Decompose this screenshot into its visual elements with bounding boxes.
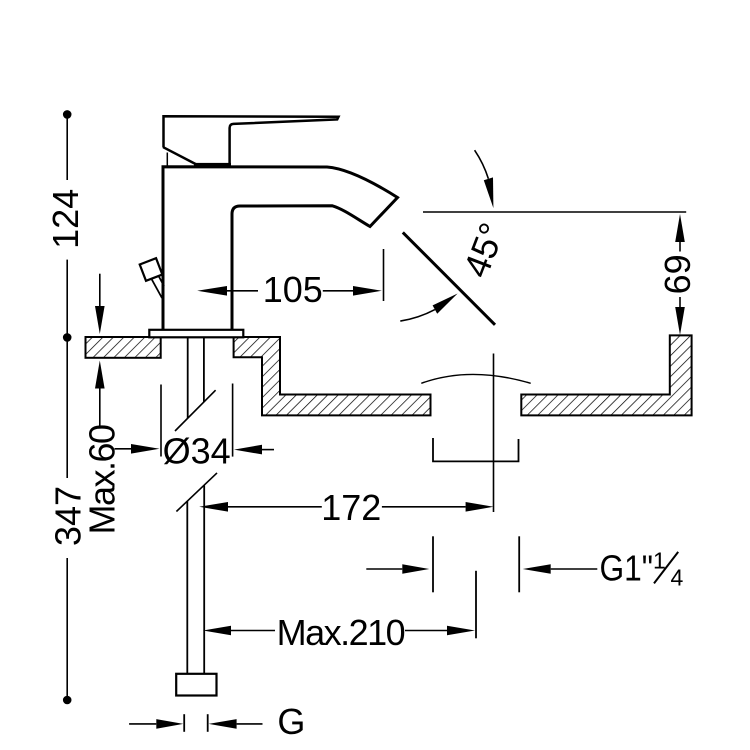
dimension Max.210 left arrow (203, 626, 231, 636)
countertop right step piece (234, 337, 431, 415)
countertop left slab (86, 337, 161, 358)
dimension Max.210 right arrow (405, 630, 447, 632)
svg-text:G: G (277, 701, 305, 742)
break line upper (175, 390, 216, 431)
dimension 69 lower arrow (679, 297, 681, 307)
svg-text:Max.60: Max.60 (82, 425, 123, 535)
dimension 45deg lower arc arrow (400, 310, 435, 322)
faucet handle base bar (194, 163, 231, 168)
dimension G left tick (183, 714, 185, 732)
dimension Max.210 center tick (475, 571, 477, 639)
dimension O34 left arrow (115, 448, 134, 450)
dimension G1 1/4 left tick (432, 536, 434, 592)
dimension 45deg horizontal reference line (423, 211, 686, 213)
dimension Max.60 upper arrow (99, 274, 101, 310)
dimension Max.60 lower arrow (95, 361, 105, 389)
drain tailpiece cup (433, 438, 519, 461)
pop-up rod (152, 280, 162, 299)
dimension 105 left arrow (197, 286, 227, 296)
dimension 124/347 dot middle (63, 333, 72, 342)
dimension 124 dot top (63, 110, 72, 119)
dimension G1 1/4 left arrow (366, 568, 402, 570)
basin water level arc (421, 374, 530, 383)
dimension G right tick (207, 714, 209, 732)
dimension 45deg slanted line (403, 232, 495, 324)
svg-text:Max.210: Max.210 (277, 612, 405, 653)
dimension 124 line (66, 114, 68, 180)
faucet handle lever (164, 116, 339, 163)
supply shank lower left line (186, 501, 188, 674)
dimension 347 dot bottom (63, 696, 72, 705)
countertop right L piece (521, 335, 691, 415)
dimension G right arrow (209, 719, 237, 729)
break line lower (176, 473, 217, 512)
svg-text:105: 105 (263, 269, 323, 310)
pop-up rod knob (140, 258, 163, 281)
svg-text:4: 4 (671, 565, 684, 591)
svg-text:172: 172 (321, 487, 381, 528)
shank end nut (176, 674, 216, 696)
drain centerline (493, 354, 495, 513)
supply shank upper left line (187, 338, 189, 418)
dimension O34 left extension line (160, 385, 162, 457)
dimension O34 right extension line (232, 384, 234, 457)
svg-text:Ø34: Ø34 (163, 431, 231, 472)
dimension 105 right arrow (323, 290, 353, 292)
dimension 347 line (66, 337, 68, 478)
dimension 69 upper arrow (675, 214, 685, 242)
svg-text:69: 69 (657, 254, 698, 294)
dimension 105 extension line (383, 249, 385, 301)
dimension O34 right arrow (234, 445, 262, 455)
faucet handle front face line (166, 153, 168, 166)
supply shank lower right line (203, 486, 205, 674)
svg-text:124: 124 (45, 189, 86, 249)
faucet body and spout outline (163, 167, 398, 331)
dimension G left arrow (129, 723, 156, 725)
dimension G1 1/4 right arrow (523, 564, 551, 574)
dimension G1 1/4 text (600, 549, 653, 589)
dimension G1 1/4 right tick (518, 536, 520, 592)
dimension 172 left arrow (199, 502, 228, 512)
supply shank upper right line (203, 338, 205, 402)
svg-text:G1": G1" (600, 549, 653, 589)
faucet base plate (149, 330, 243, 338)
dimension 172 right arrow (382, 506, 466, 508)
faucet handle base diagonal (163, 147, 196, 164)
dimension 45deg upper arc arrow (475, 150, 489, 179)
